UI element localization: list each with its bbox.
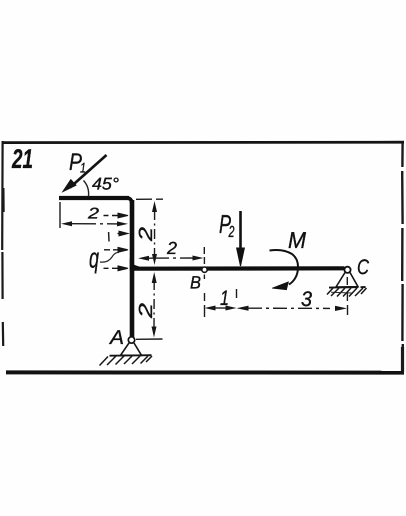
support C ground line bbox=[329, 286, 366, 289]
svg-text:C: C bbox=[357, 256, 370, 279]
svg-text:2: 2 bbox=[136, 226, 157, 242]
svg-text:1: 1 bbox=[80, 160, 86, 176]
svg-text:2: 2 bbox=[87, 206, 100, 223]
support C pin circle bbox=[344, 267, 350, 273]
svg-text:2: 2 bbox=[166, 238, 177, 258]
support C hatching bbox=[327, 288, 367, 297]
arrows of top bar dim bbox=[61, 221, 128, 226]
dim 3: P2 to C bbox=[248, 307, 330, 309]
45 degree arc bbox=[84, 181, 89, 197]
horizontal beam B-C bbox=[133, 266, 345, 271]
vertical dim line 2 (lower) bbox=[153, 280, 155, 330]
support C triangle bbox=[336, 273, 358, 288]
arrows of upper vertical dim bbox=[152, 201, 157, 265]
support A triangle bbox=[121, 343, 142, 355]
q leader squiggle bbox=[100, 252, 119, 262]
frame bottom border bbox=[6, 370, 404, 374]
vertical column member bbox=[130, 200, 135, 337]
top bar member bbox=[59, 196, 129, 200]
svg-text:q: q bbox=[89, 243, 99, 274]
svg-text:45°: 45° bbox=[92, 175, 119, 194]
dim 1: B to P2 bbox=[203, 275, 205, 318]
reference line at A level bbox=[136, 338, 163, 340]
frame top border bbox=[3, 141, 404, 144]
corner fillet bar/column bbox=[126, 196, 134, 204]
extension above B bbox=[203, 247, 205, 264]
dim: extension right of bar top bbox=[136, 198, 163, 200]
joint blob beam/column bbox=[130, 258, 144, 271]
dim line 2 (top bar) bbox=[70, 223, 120, 225]
svg-text:3: 3 bbox=[301, 288, 312, 311]
dim line 2 (to B) bbox=[147, 257, 196, 259]
extension below C bbox=[346, 277, 348, 315]
vertical dim line 2 (upper) bbox=[154, 210, 156, 258]
frame left border bbox=[2, 141, 3, 346]
force P2 arrow bbox=[237, 211, 245, 266]
frame right border bbox=[401, 143, 404, 373]
distributed load q arrows bbox=[104, 213, 129, 271]
svg-text:21: 21 bbox=[11, 144, 33, 174]
hinge B circle bbox=[202, 267, 207, 272]
moment M arc bbox=[270, 250, 299, 290]
svg-text:1: 1 bbox=[220, 287, 229, 310]
force P1 arrow bbox=[63, 155, 106, 191]
svg-text:A: A bbox=[109, 327, 124, 349]
svg-text:B: B bbox=[190, 273, 201, 293]
svg-text:2: 2 bbox=[228, 224, 235, 241]
q tail line fragment bbox=[108, 232, 110, 242]
support A hatching bbox=[100, 356, 153, 366]
dim: top bar extension line left bbox=[59, 202, 61, 228]
svg-text:M: M bbox=[288, 227, 307, 253]
svg-text:2: 2 bbox=[136, 302, 157, 319]
support A pin circle bbox=[128, 337, 134, 343]
support A ground line bbox=[110, 354, 152, 357]
